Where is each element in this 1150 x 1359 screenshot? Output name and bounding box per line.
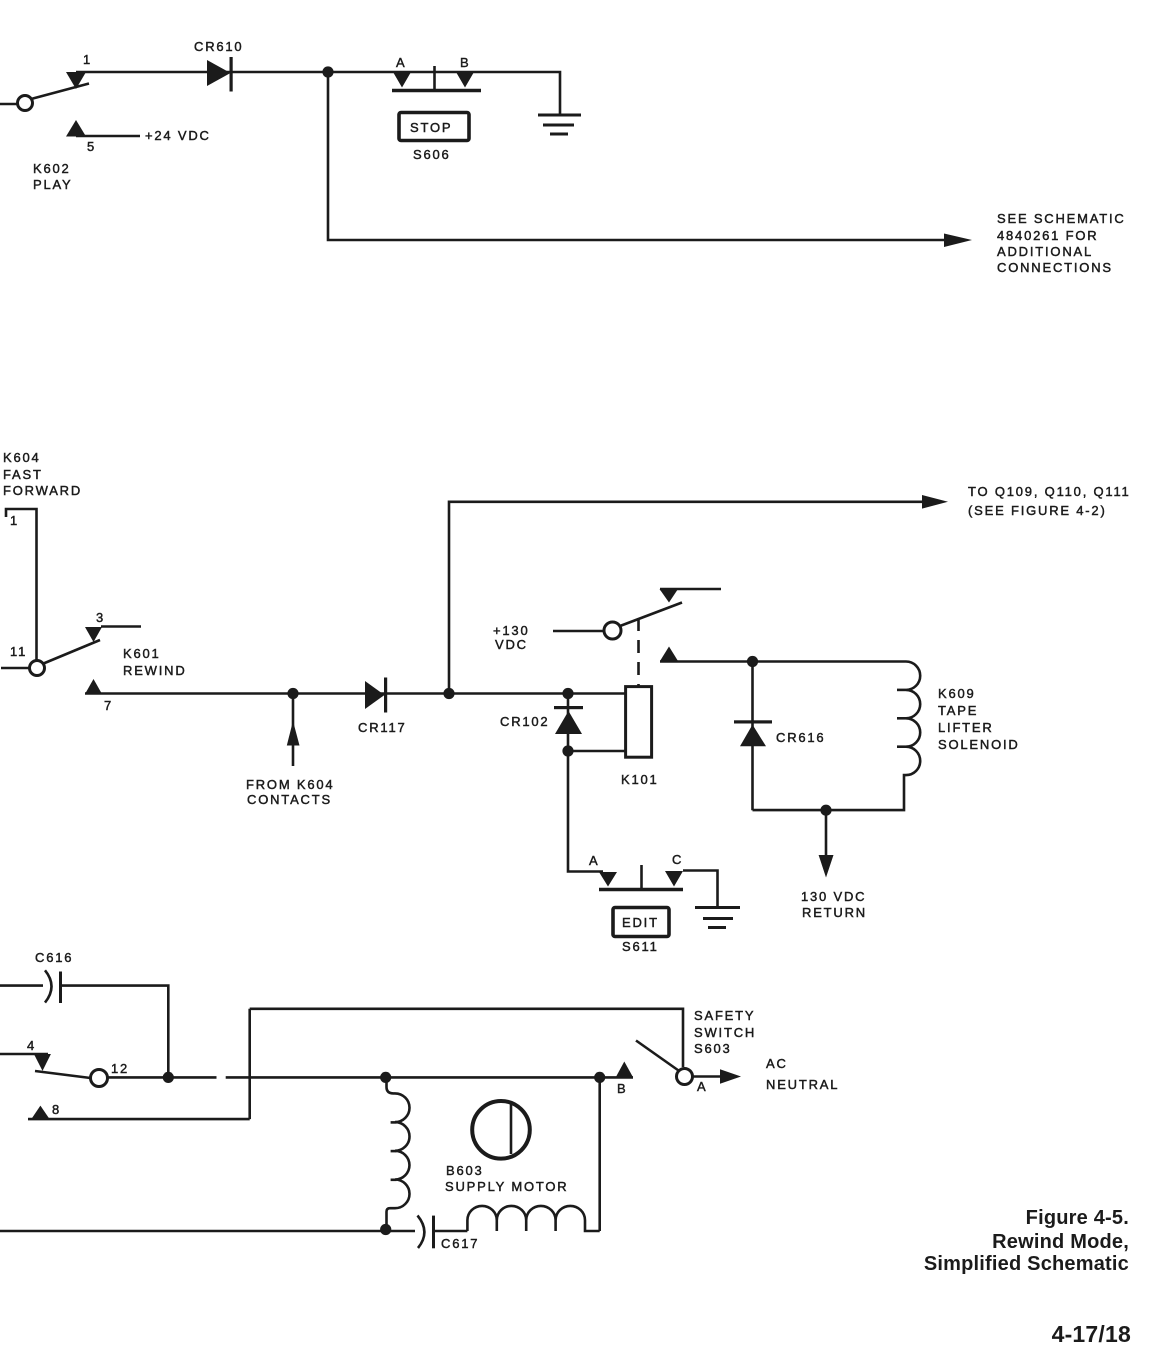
svg-text:CR117: CR117 xyxy=(358,720,407,735)
junction right riser xyxy=(594,1072,605,1083)
svg-text:C: C xyxy=(672,852,683,867)
svg-text:K609: K609 xyxy=(938,686,976,701)
svg-text:VDC: VDC xyxy=(495,637,528,652)
+130 contact triangle xyxy=(660,589,679,603)
130 VDC return arrowhead xyxy=(819,855,834,878)
svg-text:A: A xyxy=(589,853,599,868)
wire: down to EDIT contact A xyxy=(568,751,603,872)
switch S603 arm xyxy=(636,1041,679,1071)
svg-text:SWITCH: SWITCH xyxy=(694,1025,756,1040)
contact B triangle S606 xyxy=(456,72,474,88)
capacitor C616 left wire xyxy=(0,984,43,987)
svg-text:B603: B603 xyxy=(446,1163,484,1178)
svg-text:Figure 4-5.: Figure 4-5. xyxy=(1026,1207,1129,1229)
switch pivot circle 12 xyxy=(91,1070,108,1087)
EDIT pushbutton box xyxy=(613,908,669,937)
wire: contact 8 line xyxy=(28,1118,250,1121)
diode CR610 xyxy=(207,60,231,86)
wire: contact 4 stub xyxy=(0,1053,48,1056)
wire: S603 to AC neutral arrow xyxy=(693,1075,723,1078)
switch K601 arm xyxy=(44,640,101,664)
wire: EDIT C to ground xyxy=(683,871,718,908)
wire: C617 to coil xyxy=(435,1230,467,1233)
svg-text:SOLENOID: SOLENOID xyxy=(938,737,1020,752)
wire: junction drop to see-schematic arrow xyxy=(328,72,945,240)
svg-text:1: 1 xyxy=(10,513,19,528)
svg-text:A: A xyxy=(396,55,406,70)
svg-text:RETURN: RETURN xyxy=(802,905,867,920)
diode CR117 xyxy=(365,681,385,709)
switch +130 arm xyxy=(620,603,682,627)
wire: from-K604 arrow shaft xyxy=(292,699,295,766)
svg-text:C617: C617 xyxy=(441,1236,479,1251)
wire: +130 VDC stub xyxy=(553,630,604,633)
contact 7 triangle K601 xyxy=(85,679,102,694)
wire: K604 pin 1 stub xyxy=(6,509,37,661)
svg-text:CR610: CR610 xyxy=(194,39,243,54)
svg-text:+24 VDC: +24 VDC xyxy=(145,128,211,143)
svg-text:A: A xyxy=(697,1079,707,1094)
wire: AC main line circle12 to B xyxy=(108,1076,217,1079)
contact 1 triangle K602 xyxy=(66,72,86,89)
wire: rewind main line pin7 to relay K101 xyxy=(85,692,626,695)
svg-text:Simplified Schematic: Simplified Schematic xyxy=(924,1253,1129,1275)
wire: +24 VDC stub xyxy=(76,135,140,138)
junction CR102 top xyxy=(562,688,573,699)
S606 bar xyxy=(392,89,481,93)
contact B triangle S603 xyxy=(616,1062,633,1078)
junction B603 top xyxy=(380,1072,391,1083)
svg-text:130 VDC: 130 VDC xyxy=(801,889,866,904)
svg-text:1: 1 xyxy=(83,52,92,67)
junction from-K604 xyxy=(287,688,298,699)
junction at S606 xyxy=(322,66,333,77)
junction at riser xyxy=(443,688,454,699)
svg-text:Rewind Mode,: Rewind Mode, xyxy=(992,1231,1129,1253)
relay coil K101 box xyxy=(626,687,652,758)
capacitor C616 curved plate xyxy=(45,970,52,1002)
switch K601 pivot circle xyxy=(30,661,45,676)
junction B603 bottom xyxy=(380,1224,391,1235)
capacitor C616 straight plate xyxy=(59,972,62,1004)
wire: upper AC line to safety switch xyxy=(250,1009,683,1067)
svg-text:REWIND: REWIND xyxy=(123,663,187,678)
diode CR616 xyxy=(734,720,772,723)
contact 5 triangle xyxy=(66,120,86,137)
motor circle B603 xyxy=(472,1101,530,1159)
svg-text:12: 12 xyxy=(111,1061,129,1076)
ground for S611 xyxy=(695,908,740,928)
B603 coil hooks xyxy=(391,1121,397,1124)
contact 8 triangle xyxy=(31,1106,49,1120)
svg-text:3: 3 xyxy=(96,610,105,625)
contact C triangle S611 xyxy=(665,871,683,887)
wire: CR102 bottom to K101 bottom xyxy=(568,750,626,753)
S611 bar xyxy=(599,888,683,892)
K609 coil hooks xyxy=(897,689,906,692)
svg-text:S611: S611 xyxy=(622,939,659,954)
junction CR102 bottom xyxy=(562,745,573,756)
svg-text:TAPE: TAPE xyxy=(938,703,978,718)
wire: pin 11 stub xyxy=(1,667,30,670)
capacitor C617 curved plate xyxy=(418,1216,425,1249)
junction 130 VDC return xyxy=(820,805,831,816)
svg-text:+130: +130 xyxy=(493,623,529,638)
diode CR102 xyxy=(554,706,583,709)
svg-text:11: 11 xyxy=(10,644,27,659)
svg-text:5: 5 xyxy=(87,139,96,154)
svg-text:SAFETY: SAFETY xyxy=(694,1008,755,1023)
svg-text:(SEE FIGURE 4-2): (SEE FIGURE 4-2) xyxy=(968,503,1107,518)
wire: C616 to drop xyxy=(62,986,168,1078)
svg-text:FORWARD: FORWARD xyxy=(3,483,82,498)
contact 4 triangle xyxy=(34,1054,51,1071)
motor winding B603 coil xyxy=(387,1077,410,1230)
S606 middle tick xyxy=(433,66,436,91)
svg-text:B: B xyxy=(460,55,470,70)
svg-text:SEE SCHEMATIC: SEE SCHEMATIC xyxy=(997,211,1126,226)
svg-text:S603: S603 xyxy=(694,1041,732,1056)
S611 middle tick xyxy=(640,865,643,890)
inductor K609 coil xyxy=(753,662,921,811)
switch S603 pivot circle xyxy=(677,1069,693,1085)
junction CR616 top xyxy=(747,656,758,667)
dashed actuator link to K101 xyxy=(637,618,640,687)
wire: K602 stub to circle xyxy=(0,103,18,106)
AC neutral arrowhead xyxy=(720,1069,741,1084)
svg-text:K604: K604 xyxy=(3,450,41,465)
wire: riser to TO-Q109 arrow xyxy=(449,502,923,694)
diode CR102 wire xyxy=(567,694,570,752)
svg-text:CONNECTIONS: CONNECTIONS xyxy=(997,260,1113,275)
TO-Q109 arrowhead xyxy=(922,495,948,509)
svg-text:LIFTER: LIFTER xyxy=(938,720,994,735)
svg-text:NEUTRAL: NEUTRAL xyxy=(766,1077,839,1092)
svg-text:AC: AC xyxy=(766,1056,788,1071)
svg-text:EDIT: EDIT xyxy=(622,915,659,930)
svg-text:7: 7 xyxy=(104,698,113,713)
switch 4-12 arm xyxy=(35,1071,91,1078)
svg-text:ADDITIONAL: ADDITIONAL xyxy=(997,244,1093,259)
wire: top main line K602 pin1 to S606 to ground corner xyxy=(76,72,560,115)
svg-text:B: B xyxy=(617,1081,627,1096)
wire: tape lifter line to K609 coil xyxy=(660,660,906,663)
wire: 130 VDC return arrow shaft xyxy=(825,810,828,858)
tape lifter contact triangle xyxy=(660,647,678,662)
svg-text:FAST: FAST xyxy=(3,467,43,482)
ground for S606 xyxy=(538,115,581,134)
wire: right riser to junction B xyxy=(598,1077,601,1231)
switch K602 arm xyxy=(31,84,89,100)
svg-text:STOP: STOP xyxy=(410,120,452,135)
diode CR616 wire xyxy=(751,662,754,811)
svg-text:S606: S606 xyxy=(413,147,451,162)
svg-text:4: 4 xyxy=(27,1038,36,1053)
wire: stub right of +130 contact xyxy=(660,588,721,591)
svg-text:CR102: CR102 xyxy=(500,714,549,729)
wire: pin 3 stub xyxy=(101,625,141,628)
motor circle chord xyxy=(510,1104,513,1154)
svg-text:FROM K604: FROM K604 xyxy=(246,777,334,792)
see-schematic arrowhead xyxy=(944,234,972,248)
svg-text:8: 8 xyxy=(52,1102,61,1117)
junction C616 drop xyxy=(163,1072,174,1083)
svg-text:4-17/18: 4-17/18 xyxy=(1052,1321,1131,1347)
svg-text:K101: K101 xyxy=(621,772,659,787)
wire: bottom AC line xyxy=(0,1230,415,1233)
from-K604 arrowhead xyxy=(287,721,300,746)
svg-text:K601: K601 xyxy=(123,646,161,661)
svg-text:TO Q109, Q110, Q111: TO Q109, Q110, Q111 xyxy=(968,484,1131,499)
switch +130 pivot circle xyxy=(604,622,621,639)
svg-text:4840261 FOR: 4840261 FOR xyxy=(997,228,1098,243)
svg-text:PLAY: PLAY xyxy=(33,177,72,192)
contact 3 triangle K601 xyxy=(85,627,102,642)
contact A triangle S611 xyxy=(599,872,617,887)
svg-text:CONTACTS: CONTACTS xyxy=(247,792,332,807)
switch K602 pivot circle xyxy=(18,96,33,111)
svg-text:C616: C616 xyxy=(35,950,73,965)
wire: riser x=250 xyxy=(248,1009,251,1119)
svg-text:SUPPLY MOTOR: SUPPLY MOTOR xyxy=(445,1179,568,1194)
svg-text:CR616: CR616 xyxy=(776,730,825,745)
inductor B603 run winding xyxy=(467,1206,599,1231)
capacitor C617 straight plate xyxy=(432,1216,435,1249)
STOP pushbutton box xyxy=(399,113,469,141)
contact A triangle S606 xyxy=(393,72,411,88)
svg-text:K602: K602 xyxy=(33,161,71,176)
